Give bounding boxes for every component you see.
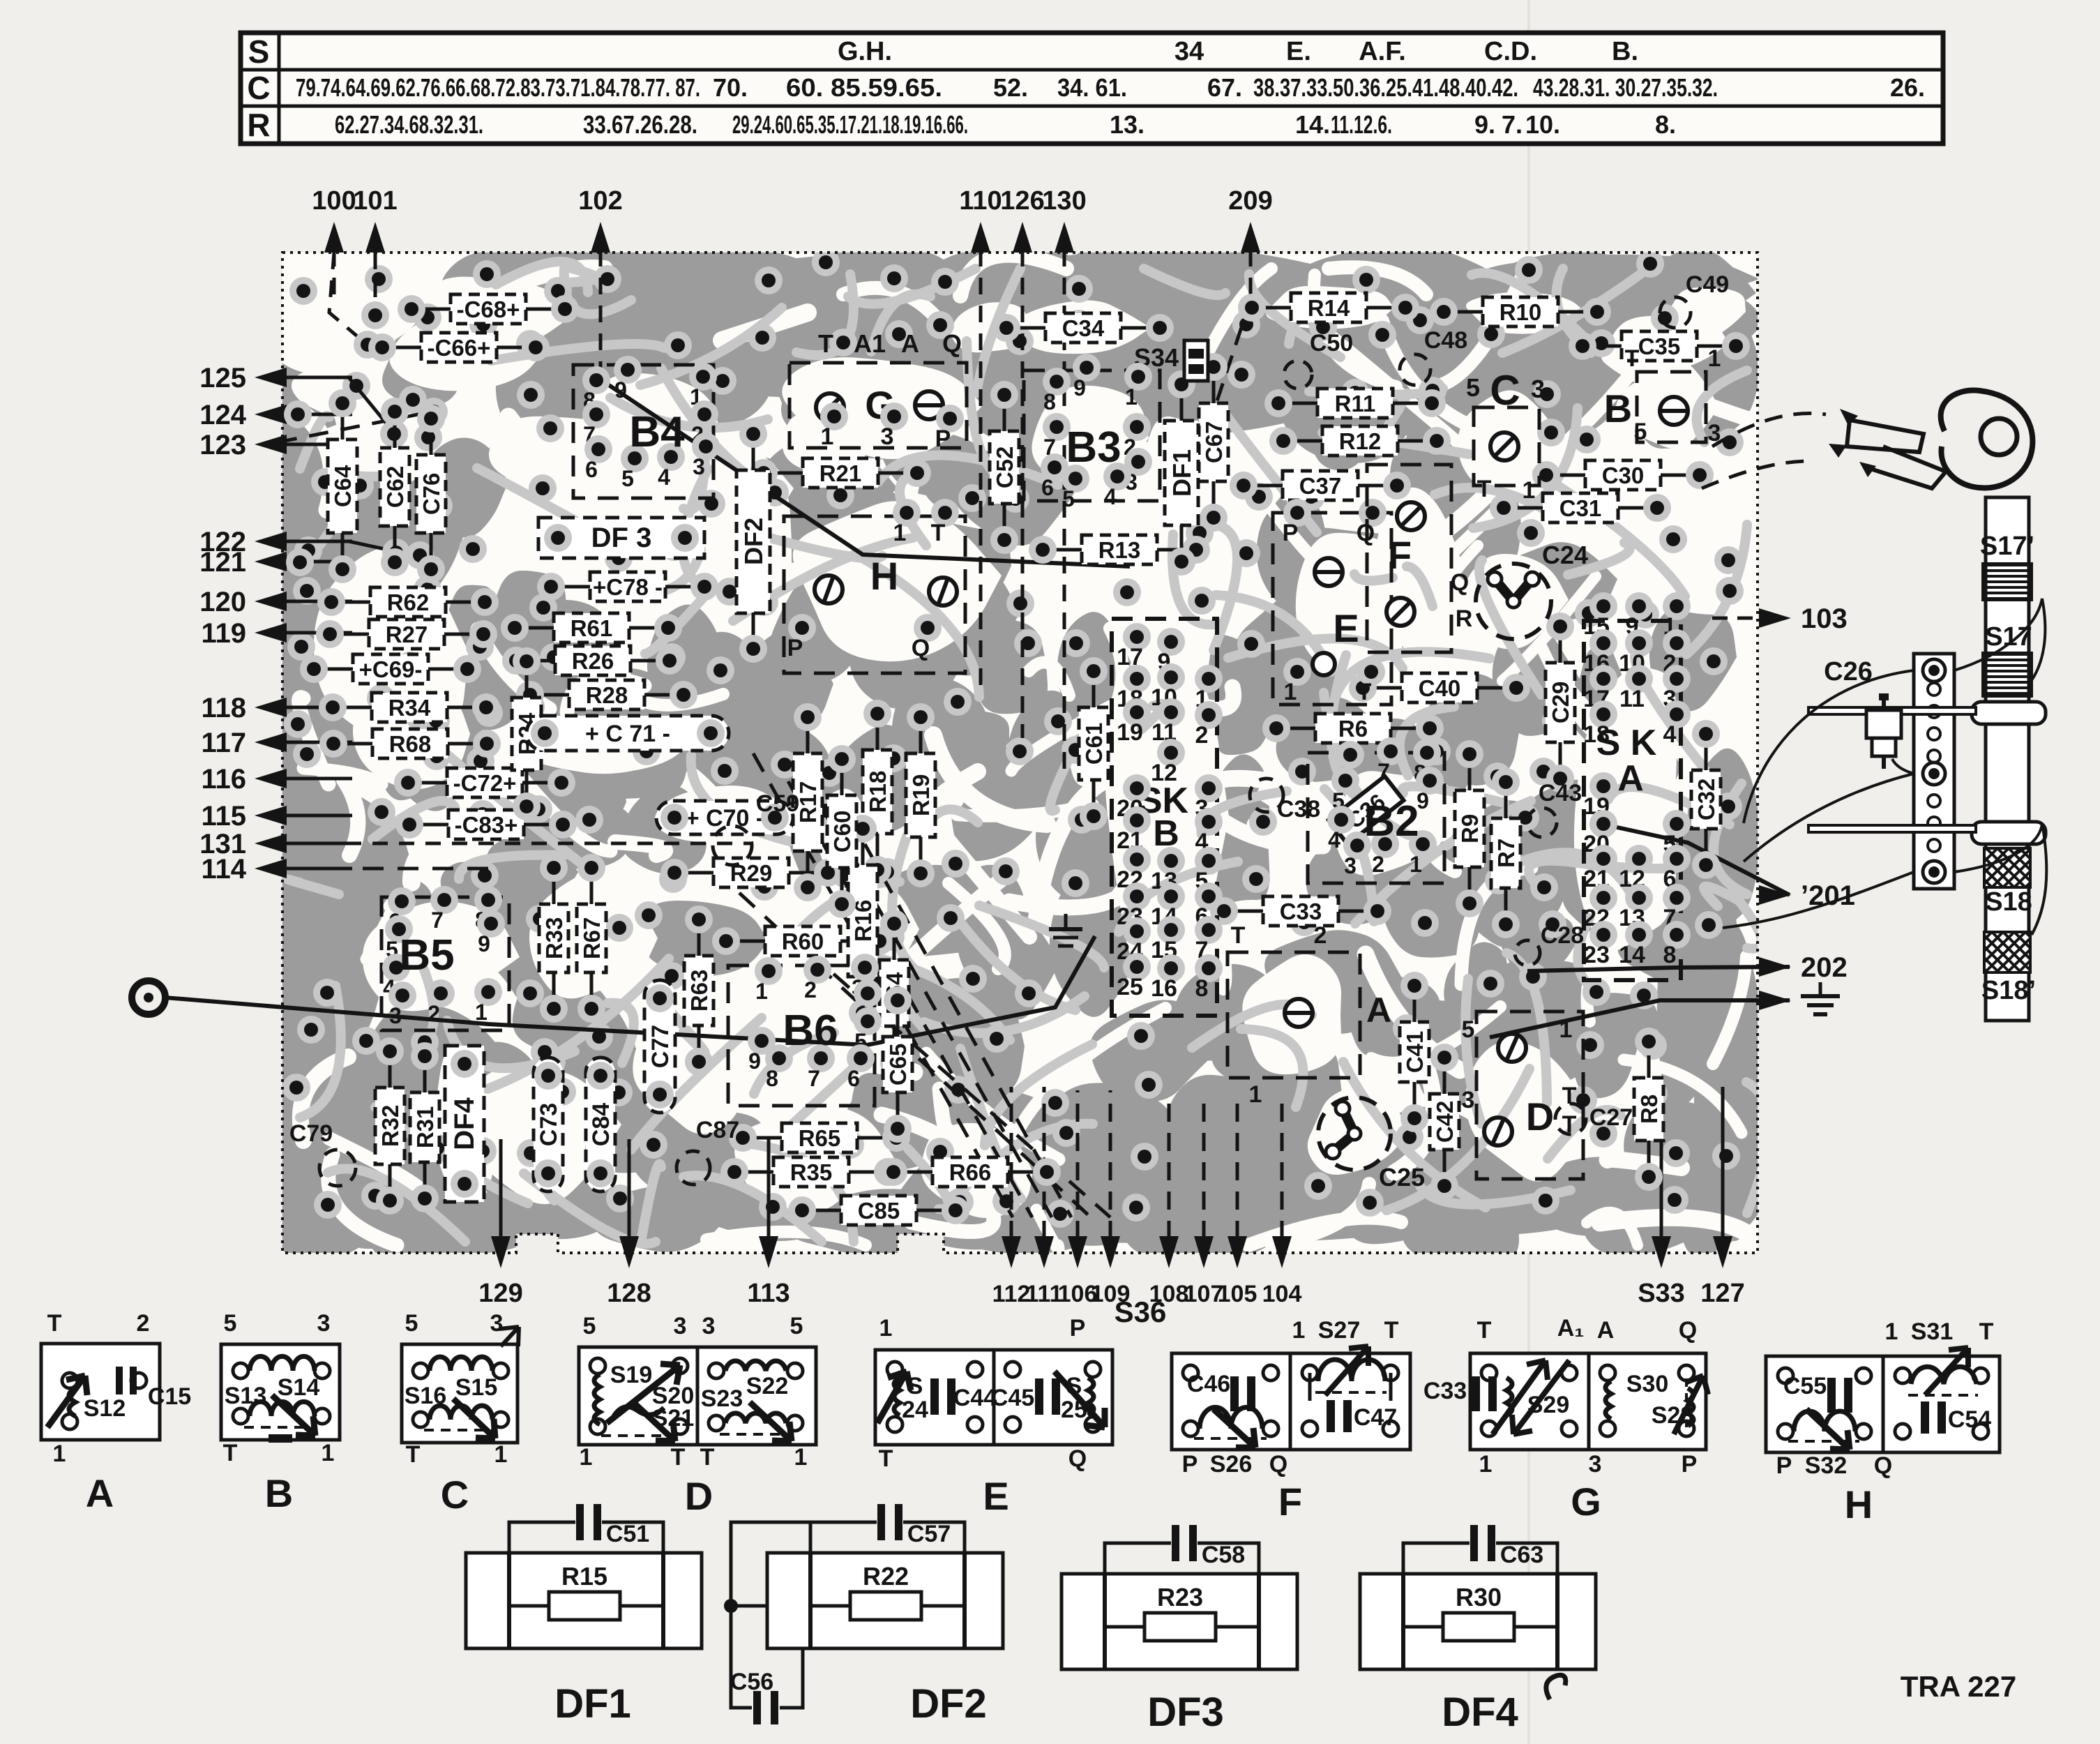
svg-text:S16: S16 (405, 1383, 447, 1409)
svg-text:1: 1 (1249, 1081, 1262, 1108)
svg-text:5: 5 (405, 1310, 418, 1337)
ground symbol on board (1064, 914, 1068, 929)
svg-text:5: 5 (621, 466, 634, 491)
resistor R61 (554, 613, 629, 642)
svg-text:4: 4 (658, 465, 670, 490)
capacitor C83 (448, 810, 524, 839)
svg-text:3: 3 (1344, 853, 1357, 878)
svg-text:A: A (86, 1471, 114, 1515)
svg-text:4: 4 (1104, 484, 1117, 509)
node 120 (255, 592, 287, 611)
capacitor C65 (883, 1037, 912, 1092)
wire from node 123 (278, 412, 432, 442)
svg-text:Q: Q (1451, 569, 1469, 596)
svg-text:P: P (1776, 1452, 1792, 1479)
svg-text:R27: R27 (386, 622, 428, 647)
svg-text:C40: C40 (1419, 675, 1461, 701)
svg-text:111: 111 (1026, 1281, 1063, 1307)
svg-text:G.H.: G.H. (838, 37, 892, 66)
svg-text:F: F (1278, 1480, 1302, 1524)
capacitor C47 (1327, 1400, 1335, 1432)
svg-text:1: 1 (1284, 679, 1297, 705)
resistor R14 (1291, 293, 1366, 322)
resistor R63 (684, 956, 713, 1025)
svg-text:C56: C56 (730, 1669, 773, 1695)
wire from lug (165, 936, 1095, 1045)
svg-text:3: 3 (490, 1310, 504, 1337)
svg-text:R22: R22 (863, 1562, 909, 1591)
svg-text:-C66+: -C66+ (428, 335, 491, 361)
resistor R30 (1403, 1625, 1443, 1629)
svg-text:26.: 26. (1890, 73, 1925, 102)
node 127 (1713, 1236, 1732, 1268)
svg-text:1: 1 (879, 1315, 893, 1341)
svg-text:C33: C33 (1423, 1378, 1467, 1404)
node 101 (365, 222, 385, 253)
svg-text:T: T (1562, 1083, 1577, 1109)
svg-text:5: 5 (1062, 486, 1075, 511)
svg-text:E.: E. (1286, 37, 1311, 66)
svg-text:1: 1 (1292, 1317, 1306, 1344)
wire to ground (1490, 1000, 1790, 1037)
board dotted border (282, 253, 1758, 1253)
svg-text:114: 114 (201, 854, 246, 885)
svg-text:DF3: DF3 (1147, 1690, 1224, 1735)
capacitor C72 (447, 768, 522, 797)
resistor R29 (713, 858, 789, 887)
node 113 (759, 1236, 778, 1268)
svg-text:C28: C28 (1541, 922, 1584, 949)
svg-text:T: T (406, 1441, 421, 1468)
coil detail E boxes (875, 1350, 994, 1445)
resistor R64 (879, 960, 909, 1026)
svg-text:1: 1 (53, 1441, 66, 1467)
svg-text:Q: Q (1068, 1445, 1087, 1472)
resistor R13 (1082, 535, 1157, 564)
coil S29 (1506, 1378, 1512, 1415)
node 110 (971, 222, 990, 253)
svg-text:+C69-: +C69- (359, 656, 423, 682)
svg-text:124: 124 (199, 400, 246, 430)
svg-text:2: 2 (428, 1001, 440, 1026)
svg-text:R65: R65 (799, 1125, 841, 1151)
resistor R8 (1634, 1078, 1663, 1141)
svg-text:3: 3 (674, 1313, 687, 1339)
coil S16 (430, 1406, 492, 1420)
svg-text:T: T (1477, 1317, 1492, 1344)
svg-text:A.F.: A.F. (1359, 37, 1406, 66)
svg-text:T: T (700, 1444, 715, 1471)
capacitor C77 (644, 980, 675, 1113)
capacitor C59 (713, 826, 752, 865)
board white pockets (418, 277, 571, 361)
capacitor C50 (1284, 361, 1312, 389)
svg-text:R11: R11 (1335, 391, 1376, 416)
capacitor C44 (930, 1378, 939, 1415)
svg-text:11: 11 (1619, 686, 1645, 712)
svg-text:C59: C59 (756, 790, 799, 817)
capacitor C28 (1515, 940, 1540, 965)
svg-text:34: 34 (1174, 37, 1204, 66)
svg-text:34. 61.: 34. 61. (1057, 73, 1127, 102)
svg-text:T: T (879, 1445, 893, 1472)
svg-text:DF 3: DF 3 (591, 523, 652, 553)
svg-text:R10: R10 (1500, 299, 1542, 325)
antenna terminal strip (1914, 654, 1954, 889)
coil S17' winding (1983, 564, 2032, 566)
svg-text:70.: 70. (713, 73, 748, 102)
svg-text:9: 9 (614, 377, 627, 403)
svg-text:C64: C64 (330, 465, 356, 507)
svg-text:126: 126 (1000, 186, 1044, 216)
svg-text:C76: C76 (418, 473, 444, 516)
svg-text:105: 105 (1218, 1281, 1257, 1307)
svg-text:24: 24 (902, 1397, 928, 1423)
capacitor C42 (1430, 1094, 1459, 1150)
svg-text:B.: B. (1612, 37, 1638, 66)
svg-text:5: 5 (224, 1310, 237, 1337)
resistor R10 (1483, 297, 1558, 326)
svg-text:3: 3 (693, 454, 705, 479)
svg-text:6: 6 (847, 1066, 860, 1091)
svg-text:2: 2 (1314, 922, 1327, 949)
coil S24 (894, 1378, 900, 1415)
ferrite rod (1986, 497, 2029, 1021)
svg-text:C50: C50 (1310, 330, 1353, 356)
svg-text:S17’: S17’ (1980, 532, 2034, 561)
svg-text:T: T (671, 1444, 686, 1471)
capacitor C33 (1263, 896, 1338, 926)
svg-text:DF4: DF4 (449, 1097, 480, 1150)
svg-text:7: 7 (808, 1066, 820, 1091)
svg-text:C84: C84 (588, 1103, 614, 1146)
svg-text:62.27.34.68.32.31.: 62.27.34.68.32.31. (335, 110, 483, 139)
svg-text:B4: B4 (629, 408, 685, 456)
svg-text:60. 85.59.65.: 60. 85.59.65. (786, 73, 942, 102)
svg-text:110: 110 (959, 186, 1002, 216)
resistor R68 (372, 729, 448, 758)
wire from node 114 (293, 867, 488, 871)
capacitor C48 (1400, 354, 1430, 385)
node 123 (255, 435, 287, 454)
node 108 (1159, 1236, 1179, 1268)
node 125 (255, 368, 287, 387)
svg-text:128: 128 (607, 1279, 651, 1308)
svg-text:1: 1 (494, 1441, 508, 1468)
svg-text:3: 3 (317, 1310, 331, 1337)
svg-text:127: 127 (1700, 1279, 1744, 1308)
svg-text:C61: C61 (1081, 723, 1107, 765)
svg-text:3: 3 (1531, 375, 1545, 403)
svg-text:DF1: DF1 (1168, 449, 1196, 497)
svg-text:R35: R35 (790, 1159, 833, 1185)
coil detail B box (221, 1344, 340, 1440)
svg-text:S31: S31 (1911, 1318, 1954, 1345)
svg-text:C.D.: C.D. (1484, 37, 1537, 66)
svg-text:113: 113 (747, 1279, 790, 1308)
svg-text:R62: R62 (387, 589, 430, 615)
svg-text:2: 2 (137, 1310, 150, 1337)
svg-text:C77: C77 (647, 1025, 674, 1068)
svg-text:1: 1 (1559, 1016, 1573, 1043)
coil S31 (1911, 1367, 1977, 1384)
svg-text:C38: C38 (1277, 796, 1320, 822)
svg-text:C62: C62 (382, 466, 408, 509)
svg-text:5: 5 (790, 1313, 803, 1339)
svg-text:1: 1 (794, 1444, 808, 1471)
svg-text:3: 3 (702, 1313, 716, 1339)
svg-text:R7: R7 (1493, 839, 1519, 868)
node 201 (1759, 885, 1791, 905)
capacitor C66 (421, 333, 497, 362)
filter DF2 on board (736, 470, 770, 613)
capacitor C37 (1283, 471, 1358, 500)
filter DF3 outer box (1062, 1574, 1297, 1669)
svg-text:9.: 9. (1474, 110, 1495, 139)
node 111 (1034, 1236, 1054, 1268)
copper pour (490, 236, 655, 381)
svg-text:C73: C73 (536, 1103, 562, 1146)
svg-text:18: 18 (1583, 721, 1610, 748)
svg-text:B2: B2 (1364, 797, 1419, 845)
svg-text:A1: A1 (854, 329, 886, 358)
capacitor C70 (656, 801, 793, 834)
node 122 (255, 532, 287, 551)
module B2 (1308, 753, 1444, 883)
svg-text:C58: C58 (1202, 1542, 1245, 1568)
coil S14 (250, 1356, 315, 1371)
wire from node 121 (293, 560, 296, 564)
ground symbol (1819, 982, 1822, 996)
node 107 (1194, 1236, 1214, 1268)
svg-text:T: T (931, 520, 946, 546)
resistor R18 (863, 750, 892, 834)
svg-text:R30: R30 (1456, 1583, 1502, 1611)
svg-text:R66: R66 (949, 1159, 992, 1185)
capacitor C61 (1079, 707, 1108, 780)
svg-text:R: R (247, 107, 270, 143)
capacitor C84 (586, 1058, 615, 1192)
antenna wires (1954, 599, 2042, 670)
filter DF4 outer box (1360, 1574, 1596, 1669)
svg-text:103: 103 (1801, 603, 1848, 634)
svg-text:DF4: DF4 (1442, 1690, 1518, 1735)
svg-text:C43: C43 (1539, 780, 1582, 806)
node 126 (1013, 222, 1032, 253)
svg-text:9: 9 (1073, 375, 1086, 400)
svg-text:121: 121 (199, 547, 246, 578)
trace group (1144, 269, 1225, 295)
svg-text:C25: C25 (1379, 1163, 1425, 1192)
svg-text:B3: B3 (1066, 423, 1121, 472)
svg-text:7: 7 (1377, 759, 1390, 784)
svg-text:+ C 71 -: + C 71 - (585, 721, 670, 747)
coil S18' winding (1984, 932, 2030, 972)
connector SK A (1584, 621, 1681, 980)
svg-text:R60: R60 (782, 929, 824, 954)
connector SK B (1112, 619, 1217, 1016)
svg-text:G: G (1571, 1480, 1601, 1524)
module F (1367, 465, 1451, 652)
svg-text:125: 125 (199, 363, 246, 393)
svg-text:S27: S27 (1318, 1317, 1361, 1344)
svg-text:3: 3 (1462, 1087, 1475, 1113)
svg-text:2: 2 (804, 977, 817, 1002)
resistor R66 (932, 1157, 1008, 1187)
svg-text:8.: 8. (1655, 110, 1676, 139)
svg-text:6: 6 (1041, 475, 1054, 500)
resistor R24 (512, 698, 541, 770)
svg-text:T: T (1357, 679, 1372, 705)
svg-text:P: P (1070, 1315, 1086, 1341)
svg-text:C29: C29 (1548, 682, 1573, 724)
svg-text:38.37.33.50.36.25.41.48.40.42.: 38.37.33.50.36.25.41.48.40.42. (1253, 73, 1518, 102)
node 118 (255, 698, 287, 717)
coil S26 (1200, 1407, 1262, 1429)
svg-text:DF2: DF2 (739, 518, 768, 565)
node 119 (255, 623, 287, 642)
resistor R34 (372, 693, 447, 722)
module G (790, 363, 967, 448)
svg-text:+C78 -: +C78 - (593, 574, 663, 600)
capacitor C29 (1546, 663, 1575, 742)
coil detail F boxes (1172, 1353, 1290, 1450)
svg-text:C85: C85 (858, 1198, 900, 1224)
resistor R23 (1105, 1625, 1145, 1629)
wire diagonal B4 to B3 (596, 377, 1130, 566)
capacitor C54 (1921, 1401, 1929, 1434)
svg-text:C32: C32 (1693, 779, 1719, 821)
capacitor C56 (731, 1522, 810, 1708)
svg-text:C: C (441, 1473, 469, 1517)
capacitor C49 (1660, 297, 1691, 328)
svg-text:100: 100 (312, 186, 356, 216)
resistor R22 (810, 1604, 850, 1608)
capacitor C76 (416, 455, 446, 533)
svg-text:4: 4 (1663, 721, 1677, 748)
capacitor C79 (319, 1150, 356, 1186)
capacitor C69 (353, 654, 428, 684)
svg-text:202: 202 (1801, 952, 1848, 983)
svg-text:1: 1 (755, 979, 768, 1004)
svg-text:9: 9 (748, 1048, 761, 1074)
svg-text:S26: S26 (1210, 1451, 1253, 1478)
svg-text:C47: C47 (1354, 1404, 1397, 1431)
svg-text:A: A (1366, 991, 1391, 1030)
svg-text:S33: S33 (1638, 1279, 1685, 1308)
svg-text:P: P (1283, 520, 1299, 546)
capacitor C15 (116, 1367, 123, 1395)
svg-text:P: P (1182, 1451, 1198, 1478)
svg-text:E: E (983, 1474, 1009, 1518)
wire clip leads (1712, 414, 1826, 446)
svg-text:F: F (1388, 533, 1412, 577)
module B4 (573, 365, 713, 498)
svg-text:C45: C45 (991, 1385, 1034, 1411)
svg-text:C35: C35 (1638, 333, 1681, 359)
capacitor C85 (841, 1196, 916, 1225)
svg-text:S14: S14 (278, 1374, 320, 1401)
svg-text:C31: C31 (1559, 495, 1602, 521)
svg-text:R23: R23 (1157, 1583, 1203, 1611)
svg-text:Q: Q (1874, 1452, 1892, 1479)
capacitor C32 (1691, 770, 1721, 829)
svg-text:T: T (818, 329, 833, 358)
capacitor C71 (527, 716, 729, 751)
svg-text:119: 119 (201, 618, 246, 649)
capacitor C31 (1543, 493, 1618, 523)
node 117 (255, 732, 287, 752)
resistor R33 (539, 904, 568, 972)
svg-text:9: 9 (478, 931, 490, 956)
module E (1273, 513, 1391, 705)
svg-text:43.28.31. 30.27.35.32.: 43.28.31. 30.27.35.32. (1533, 73, 1718, 102)
filter DF1 outer box (466, 1553, 702, 1648)
svg-text:8: 8 (1043, 389, 1056, 414)
svg-text:C48: C48 (1424, 327, 1467, 354)
svg-text:T: T (1625, 345, 1640, 372)
capacitor C40 (1402, 673, 1477, 702)
svg-text:R14: R14 (1308, 295, 1350, 321)
svg-text:2: 2 (1372, 852, 1384, 877)
svg-text:5: 5 (1634, 419, 1647, 445)
svg-text:R9: R9 (1457, 814, 1483, 843)
svg-text:29.24.60.65.35.17.21.18.19.16.: 29.24.60.65.35.17.21.18.19.16.66. (732, 110, 968, 139)
svg-text:B: B (265, 1471, 293, 1515)
resistor R11 (1317, 389, 1393, 418)
svg-text:13.: 13. (1110, 110, 1145, 139)
svg-text:7.: 7. (1502, 110, 1523, 139)
svg-text:129: 129 (478, 1279, 522, 1308)
svg-text:1: 1 (1125, 384, 1138, 409)
svg-text:R31: R31 (412, 1106, 438, 1149)
svg-text:14: 14 (1619, 942, 1645, 968)
svg-text:S36: S36 (1115, 1295, 1167, 1328)
resistor R67 (577, 904, 606, 972)
svg-text:A: A (1617, 758, 1644, 799)
wire from node 122 (293, 541, 394, 551)
connection table frame (241, 33, 1943, 144)
capacitor C63 (1403, 1543, 1470, 1574)
coil S30 (1606, 1381, 1611, 1419)
coil S13 (250, 1401, 315, 1416)
svg-text:R8: R8 (1636, 1095, 1662, 1124)
svg-text:DF2: DF2 (910, 1681, 987, 1727)
svg-text:R21: R21 (819, 460, 862, 486)
svg-text:116: 116 (201, 764, 246, 795)
module H (784, 516, 965, 673)
svg-text:R34: R34 (388, 695, 431, 721)
coil detail H boxes (1766, 1356, 1883, 1452)
svg-text:120: 120 (199, 587, 246, 617)
svg-text:123: 123 (199, 430, 246, 460)
node 105 (1227, 1236, 1247, 1268)
node 121 (255, 552, 287, 571)
svg-text:3: 3 (881, 423, 894, 450)
svg-text:D: D (685, 1474, 713, 1518)
svg-text:-C83+: -C83+ (455, 812, 518, 838)
svg-text:C55: C55 (1783, 1373, 1827, 1399)
svg-text:7: 7 (431, 908, 444, 933)
capacitor C60 (827, 795, 856, 868)
svg-text:S23: S23 (701, 1385, 743, 1412)
svg-text:2: 2 (1195, 722, 1209, 749)
svg-text:33.67.26.28.: 33.67.26.28. (583, 110, 697, 139)
capacitor C43 (1527, 808, 1557, 837)
svg-text:130: 130 (1042, 186, 1086, 216)
capacitor C62 (380, 448, 409, 526)
svg-text:P: P (787, 635, 803, 661)
